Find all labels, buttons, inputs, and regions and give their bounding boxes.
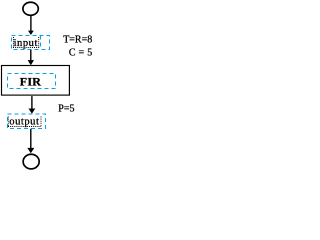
arrowhead into output [29,109,36,114]
output label marquee [7,117,9,127]
wire: FIR to output [31,96,33,110]
arrowhead into input [28,31,34,35]
node input: label dashed box [12,36,50,50]
svg-text:T=R=8: T=R=8 [63,35,92,46]
arrowhead into sink [27,148,34,153]
arrowhead into FIR [28,60,34,65]
FIR selection dashed box [8,74,56,89]
svg-text:FIR: FIR [20,75,41,89]
wire: source to input [30,16,32,33]
node: bottom sink circle [23,154,39,169]
svg-text:input: input [14,38,38,49]
input label marquee [13,37,15,47]
svg-text:output: output [9,117,39,128]
svg-text:P=5: P=5 [58,103,74,114]
node: top source circle [23,2,38,15]
svg-text:C = 5: C = 5 [69,47,92,58]
input port divider [40,36,42,50]
node FIR: outer box [2,66,70,96]
wire: input to FIR [30,50,32,62]
wire: output to sink [30,129,32,150]
node output: label dashed box [8,114,46,129]
